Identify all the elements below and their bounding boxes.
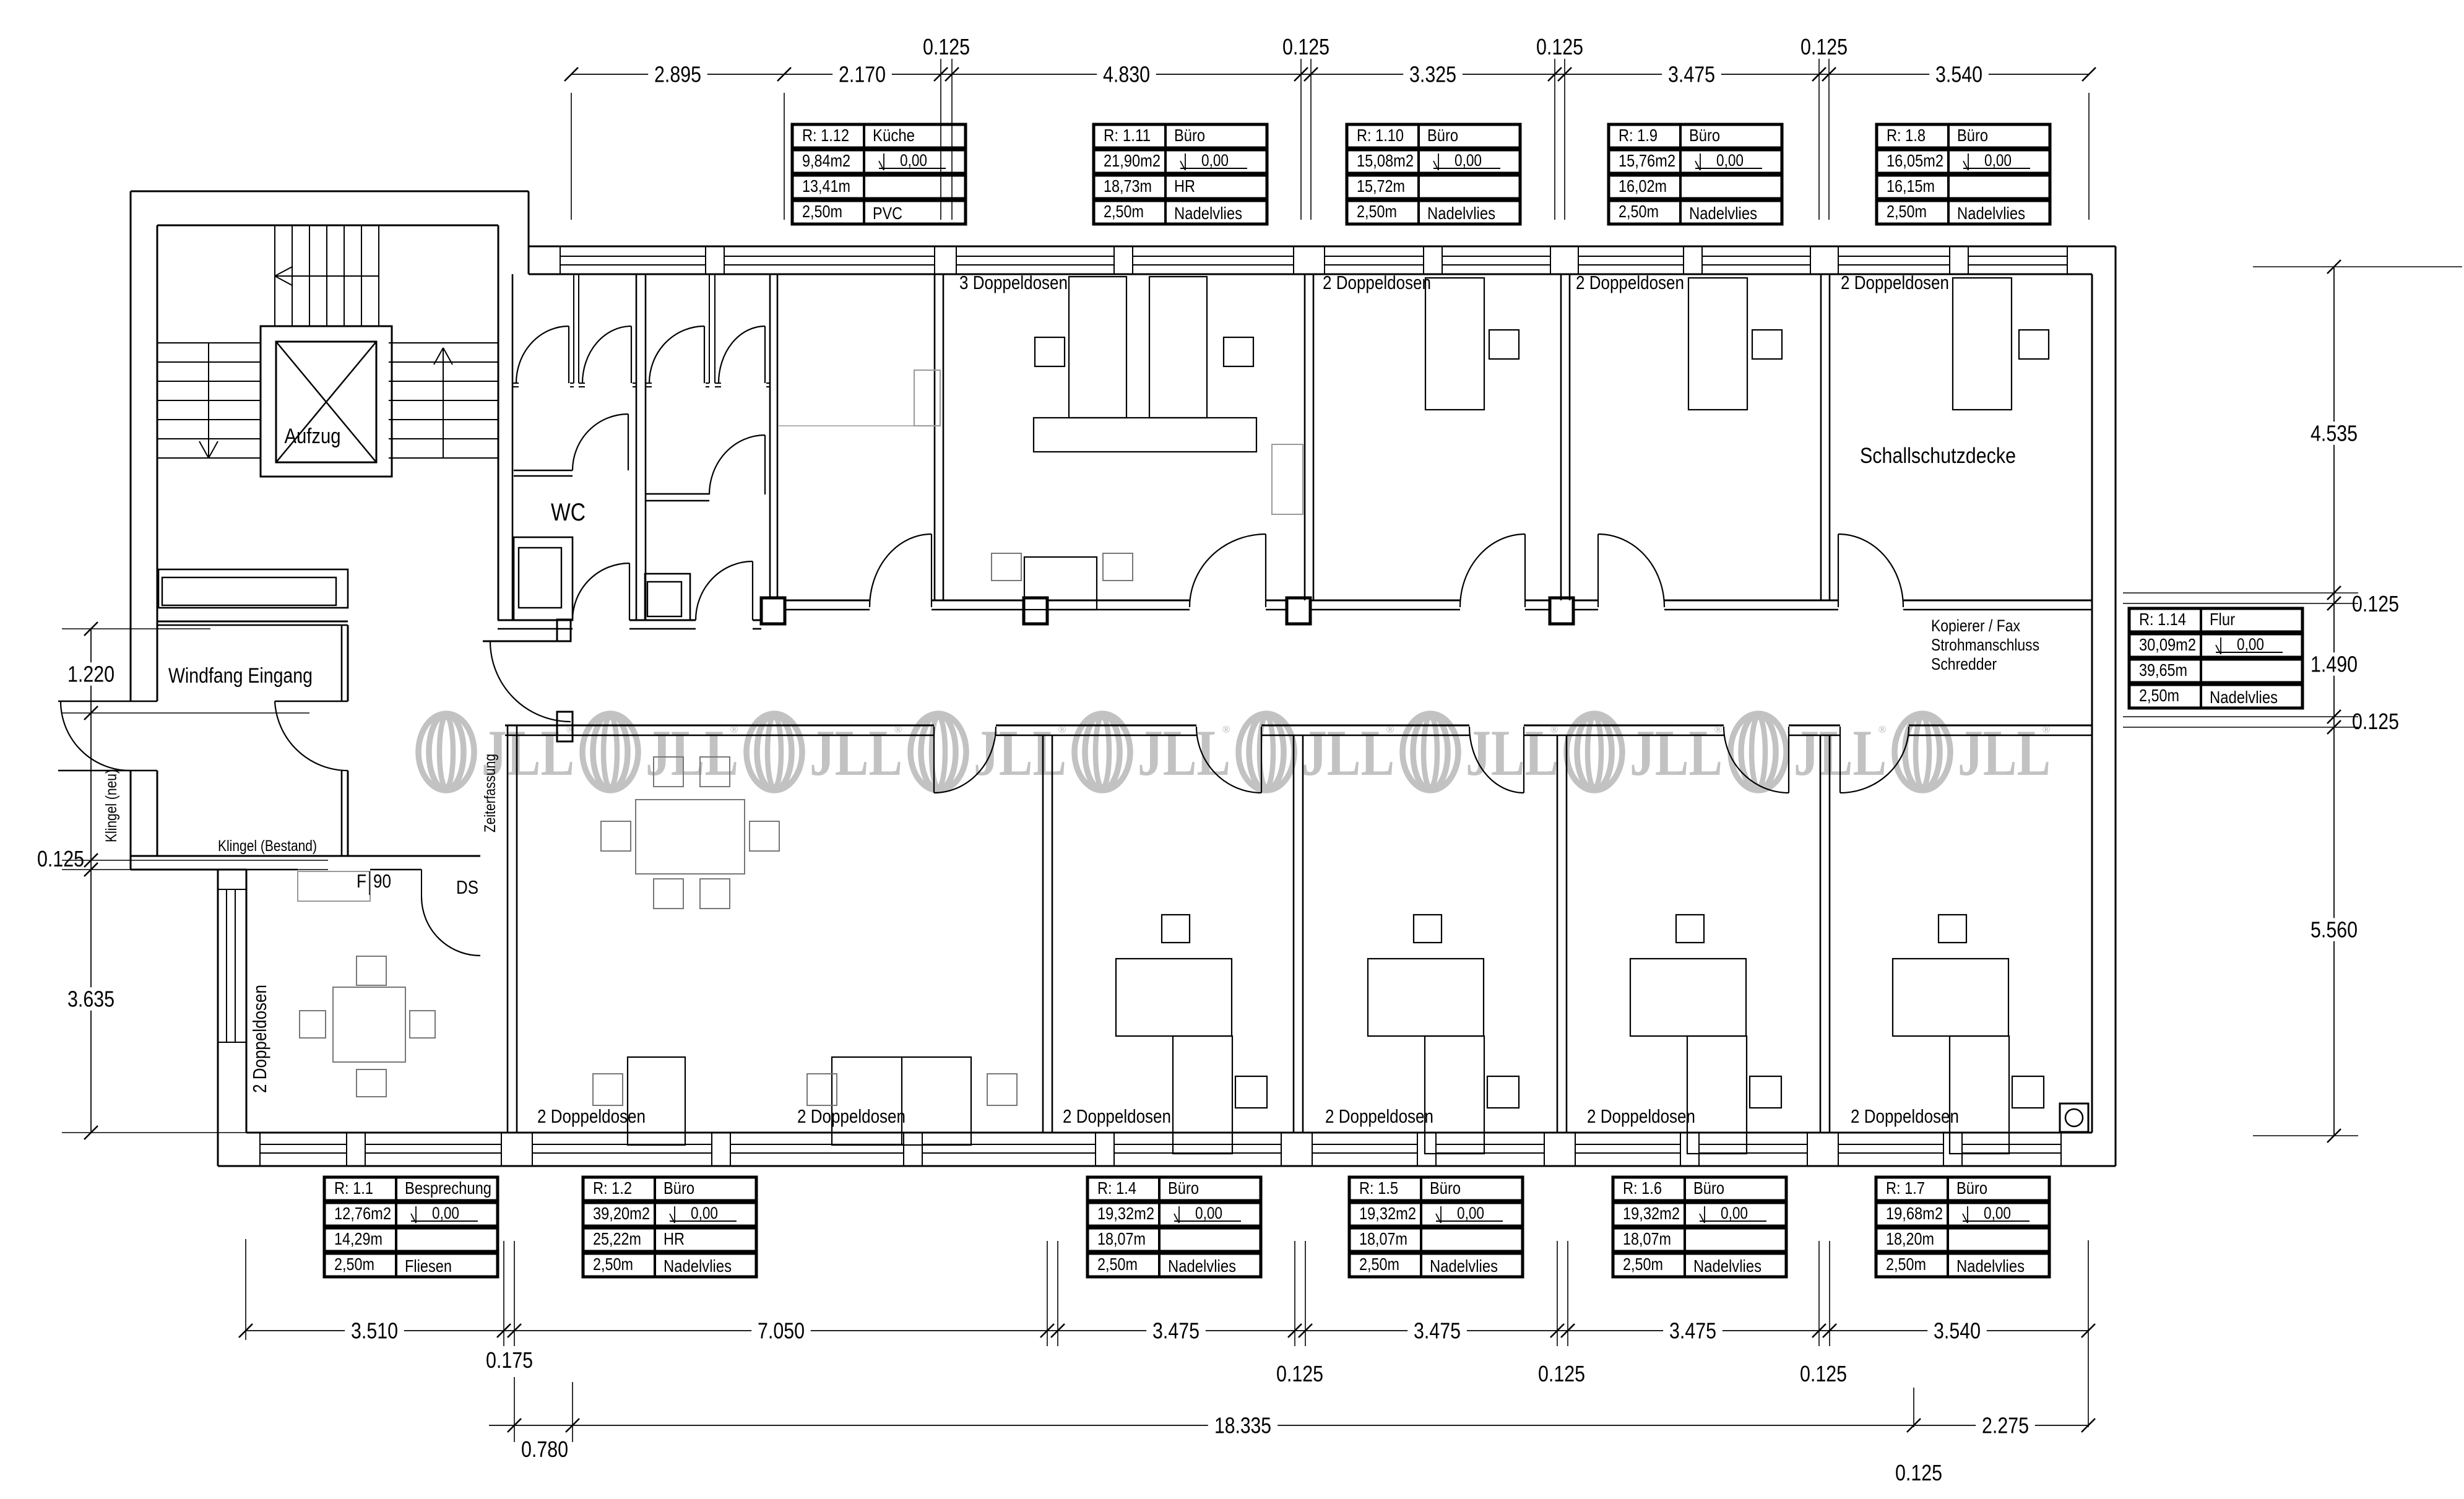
svg-text:Klingel (Bestand): Klingel (Bestand): [218, 837, 317, 855]
partition R1.2 / R1.4: [1042, 735, 1044, 1133]
svg-text:Nadelvlies: Nadelvlies: [1168, 1256, 1236, 1276]
desk R1.9: [1688, 278, 1747, 410]
svg-text:0,00: 0,00: [900, 151, 927, 170]
cabinet R1.11: [1272, 444, 1303, 514]
svg-text:4.535: 4.535: [2311, 421, 2358, 446]
svg-text:18,07m: 18,07m: [1623, 1229, 1671, 1248]
svg-text:0.125: 0.125: [1276, 1361, 1323, 1386]
svg-text:R: 1.7: R: 1.7: [1886, 1178, 1925, 1198]
svg-text:2,50m: 2,50m: [1097, 1255, 1138, 1274]
svg-text:Büro: Büro: [664, 1178, 694, 1198]
svg-text:18,20m: 18,20m: [1886, 1229, 1934, 1248]
svg-text:JLL: JLL: [1138, 717, 1230, 789]
outer wall building perimeter: [131, 191, 529, 192]
svg-text:Aufzug: Aufzug: [285, 425, 341, 448]
svg-text:R: 1.14: R: 1.14: [2139, 610, 2186, 629]
svg-text:3.325: 3.325: [1409, 62, 1456, 87]
svg-text:R: 1.6: R: 1.6: [1623, 1178, 1662, 1198]
svg-text:2,50m: 2,50m: [802, 202, 842, 221]
corridor columns: [761, 598, 785, 624]
svg-text:Windfang Eingang: Windfang Eingang: [168, 664, 313, 688]
svg-text:JLL: JLL: [1466, 717, 1558, 789]
besprechung west wall: [217, 870, 218, 1166]
top wall inner face: [529, 274, 2092, 275]
room table R: 1.4 B&#252;ro: [1087, 1177, 1261, 1201]
svg-text:JLL: JLL: [1958, 717, 2051, 789]
svg-text:Büro: Büro: [1956, 1178, 1987, 1198]
desk R1.10: [1425, 278, 1484, 410]
svg-text:R: 1.4: R: 1.4: [1097, 1178, 1136, 1198]
svg-text:39,20m2: 39,20m2: [593, 1204, 650, 1223]
svg-text:15,76m2: 15,76m2: [1619, 151, 1675, 170]
svg-text:14,29m: 14,29m: [334, 1229, 383, 1248]
svg-text:19,68m2: 19,68m2: [1886, 1204, 1943, 1223]
svg-text:3.475: 3.475: [1669, 1318, 1716, 1344]
room table R: 1.1 Besprechung: [324, 1177, 498, 1201]
left outer wall with entrance door opening: [130, 191, 132, 701]
kitchen counter: [914, 370, 940, 426]
entrance hall wardrobe: [158, 569, 348, 608]
desk R1.8: [1953, 278, 2012, 410]
svg-text:0.780: 0.780: [521, 1436, 568, 1462]
svg-text:4.830: 4.830: [1103, 62, 1150, 87]
svg-text:Nadelvlies: Nadelvlies: [664, 1256, 732, 1276]
svg-text:2,50m: 2,50m: [1359, 1255, 1399, 1274]
WC center partition wall: [636, 274, 638, 620]
door R1.7: [1839, 727, 1841, 793]
svg-text:JLL: JLL: [646, 717, 738, 789]
svg-text:Büro: Büro: [1957, 126, 1988, 145]
svg-text:2 Doppeldosen: 2 Doppeldosen: [1323, 272, 1431, 293]
svg-text:JLL: JLL: [1630, 717, 1723, 789]
svg-text:0.125: 0.125: [2352, 591, 2399, 616]
svg-text:2 Doppeldosen: 2 Doppeldosen: [797, 1105, 906, 1127]
svg-text:R: 1.1: R: 1.1: [334, 1178, 373, 1198]
svg-text:2 Doppeldosen: 2 Doppeldosen: [1851, 1105, 1959, 1127]
svg-text:30,09m2: 30,09m2: [2139, 635, 2196, 654]
svg-text:Büro: Büro: [1174, 126, 1205, 145]
svg-text:3.635: 3.635: [67, 987, 115, 1012]
room table R: 1.9 B&#252;ro: [1609, 124, 1782, 148]
svg-text:R: 1.11: R: 1.11: [1104, 126, 1151, 145]
svg-text:Strohmanschluss: Strohmanschluss: [1931, 636, 2039, 654]
svg-text:16,05m2: 16,05m2: [1887, 151, 1943, 170]
WC right small fixture: [645, 574, 690, 620]
svg-text:R: 1.10: R: 1.10: [1357, 126, 1404, 145]
svg-text:3.475: 3.475: [1152, 1318, 1200, 1344]
svg-text:Flur: Flur: [2210, 610, 2235, 629]
top dimension line: [571, 74, 2089, 75]
svg-text:2 Doppeldosen: 2 Doppeldosen: [1576, 272, 1684, 293]
desk R1.2 single: [628, 1057, 685, 1145]
bottom dimension line 2 overall: [489, 1425, 2088, 1426]
svg-text:2,50m: 2,50m: [1886, 1255, 1926, 1274]
svg-text:R: 1.9: R: 1.9: [1619, 126, 1658, 145]
WC stall partitions: [573, 274, 574, 383]
door R1.8: [1838, 534, 1839, 607]
svg-text:DS: DS: [456, 876, 478, 898]
svg-text:0,00: 0,00: [1716, 151, 1744, 170]
stair upper flight walking line with arrow: [275, 275, 378, 277]
svg-text:3.540: 3.540: [1934, 1318, 1981, 1344]
svg-text:3 Doppeldosen: 3 Doppeldosen: [959, 272, 1068, 293]
svg-text:3.540: 3.540: [1935, 62, 1982, 87]
svg-text:18.335: 18.335: [1214, 1413, 1271, 1438]
left dimension line: [90, 629, 92, 1133]
table R1.1 with chairs: [333, 987, 405, 1062]
svg-text:21,90m2: 21,90m2: [1104, 151, 1161, 170]
svg-text:JLL: JLL: [810, 717, 902, 789]
svg-text:®: ®: [1878, 724, 1887, 735]
svg-text:9,84m2: 9,84m2: [802, 151, 850, 170]
stair tower east wall / WC west wall: [498, 225, 499, 620]
corridor south wall with door openings: [505, 725, 934, 727]
svg-text:12,76m2: 12,76m2: [334, 1204, 391, 1223]
svg-text:2,50m: 2,50m: [593, 1255, 633, 1274]
WC lower-left cubicle: [514, 537, 573, 620]
svg-text:2,50m: 2,50m: [2139, 686, 2179, 705]
svg-text:1.490: 1.490: [2311, 652, 2358, 677]
svg-text:2,50m: 2,50m: [1357, 202, 1397, 221]
stair right walking line with up arrow: [443, 348, 444, 458]
svg-text:®: ®: [1222, 724, 1230, 735]
svg-text:7.050: 7.050: [758, 1318, 805, 1344]
svg-text:2,50m: 2,50m: [1619, 202, 1659, 221]
bottom dimension line 1: [246, 1330, 2088, 1331]
room table R: 1.5 B&#252;ro: [1349, 1177, 1523, 1201]
fire door F90 leaf: [298, 871, 370, 901]
partition R1.11 / R1.10: [1304, 274, 1306, 600]
svg-text:Küche: Küche: [873, 126, 915, 145]
svg-text:15,08m2: 15,08m2: [1357, 151, 1414, 170]
svg-text:0.125: 0.125: [923, 34, 970, 59]
svg-text:0.125: 0.125: [1800, 1361, 1847, 1386]
JLL watermark band: [418, 714, 1950, 790]
door R1.2: [933, 727, 935, 793]
room table R: 1.8 B&#252;ro: [1877, 124, 2050, 148]
door R1.5: [1523, 727, 1524, 793]
svg-text:25,22m: 25,22m: [593, 1229, 641, 1248]
stair right flight treads: [389, 342, 498, 343]
svg-text:Nadelvlies: Nadelvlies: [1174, 204, 1242, 223]
svg-text:Zeiterfassung: Zeiterfassung: [482, 754, 499, 832]
svg-text:13,41m: 13,41m: [802, 176, 850, 196]
door R1.4: [1261, 727, 1262, 793]
bottom wall windows and pillars: [260, 1144, 347, 1145]
room table R: 1.12 K&#252;che: [792, 124, 966, 148]
svg-text:R: 1.5: R: 1.5: [1359, 1178, 1398, 1198]
door R1.9: [1597, 534, 1599, 607]
svg-text:18,07m: 18,07m: [1097, 1229, 1146, 1248]
partition R1.2 west wall: [507, 725, 509, 1133]
svg-text:F: F: [357, 870, 366, 892]
desk R1.2 double: [832, 1057, 971, 1145]
room table R: 1.2 B&#252;ro: [583, 1177, 756, 1201]
svg-text:Nadelvlies: Nadelvlies: [1689, 204, 1757, 223]
svg-text:R: 1.12: R: 1.12: [802, 126, 849, 145]
partition R1.5 / R1.6: [1557, 735, 1558, 1133]
room table R: 1.6 B&#252;ro: [1613, 1177, 1786, 1201]
WC anteroom door left: [629, 563, 630, 620]
partition kitchen east wall: [934, 274, 936, 600]
svg-text:0.125: 0.125: [1800, 34, 1848, 59]
svg-text:2,50m: 2,50m: [1623, 1255, 1663, 1274]
left wall inner face: [157, 225, 158, 701]
WC south wall with two doors: [498, 620, 573, 621]
windfang east wall: [341, 625, 343, 701]
svg-text:R: 1.2: R: 1.2: [593, 1178, 632, 1198]
svg-text:0,00: 0,00: [1201, 151, 1229, 170]
svg-text:0,00: 0,00: [1455, 151, 1482, 170]
desk R1.7: [1893, 959, 2008, 1036]
svg-text:2 Doppeldosen: 2 Doppeldosen: [249, 985, 270, 1093]
svg-text:Nadelvlies: Nadelvlies: [1427, 204, 1495, 223]
svg-text:0,00: 0,00: [1721, 1204, 1748, 1222]
corridor north wall with door openings: [777, 600, 870, 602]
svg-text:1.220: 1.220: [67, 662, 115, 687]
svg-text:5.560: 5.560: [2311, 917, 2358, 943]
svg-text:0,00: 0,00: [1195, 1204, 1222, 1222]
door R1.6: [1788, 727, 1789, 793]
WC east wall / kitchen west wall: [769, 274, 771, 600]
corridor south wall west jamb: [557, 712, 573, 741]
svg-text:2.895: 2.895: [654, 62, 701, 87]
svg-text:0,00: 0,00: [2237, 635, 2264, 654]
besprechung north wall with F90 and DS doors: [131, 855, 480, 857]
partition R1.6 / R1.7: [1820, 735, 1822, 1133]
bottom wall inner face: [246, 1132, 2092, 1134]
desk R1.4: [1116, 959, 1232, 1036]
entry door to corridor flur: [483, 641, 557, 642]
svg-text:2,50m: 2,50m: [1887, 202, 1927, 221]
svg-text:2 Doppeldosen: 2 Doppeldosen: [1841, 272, 1949, 293]
svg-text:PVC: PVC: [873, 204, 902, 223]
svg-text:HR: HR: [1174, 176, 1195, 196]
svg-text:0.125: 0.125: [37, 846, 84, 871]
WC right room door: [764, 435, 766, 495]
svg-text:15,72m: 15,72m: [1357, 176, 1405, 196]
west wall window of room R1.1: [226, 889, 227, 1042]
svg-text:3.510: 3.510: [351, 1318, 398, 1344]
svg-text:2 Doppeldosen: 2 Doppeldosen: [537, 1105, 646, 1127]
svg-text:Büro: Büro: [1427, 126, 1458, 145]
svg-text:0,00: 0,00: [1984, 151, 2012, 170]
svg-text:2 Doppeldosen: 2 Doppeldosen: [1325, 1105, 1433, 1127]
door DS: [421, 897, 480, 956]
svg-text:2.275: 2.275: [1982, 1413, 2029, 1438]
meeting table R1.11: [1024, 557, 1097, 610]
WC left room front wall with door: [514, 470, 573, 472]
stair tower top wall inner face: [157, 225, 498, 227]
svg-text:0,00: 0,00: [432, 1204, 459, 1222]
svg-text:JLL: JLL: [1302, 717, 1394, 789]
svg-text:0.125: 0.125: [2352, 709, 2399, 734]
partition R1.10 / R1.9: [1560, 274, 1562, 600]
door R1.10: [1524, 534, 1526, 607]
svg-text:90: 90: [373, 870, 391, 892]
svg-text:0.175: 0.175: [486, 1347, 533, 1373]
svg-text:3.475: 3.475: [1668, 62, 1715, 87]
svg-text:0,00: 0,00: [1984, 1204, 2011, 1222]
svg-text:19,32m2: 19,32m2: [1359, 1204, 1416, 1223]
svg-text:2.170: 2.170: [839, 62, 886, 87]
svg-text:19,32m2: 19,32m2: [1097, 1204, 1154, 1223]
svg-text:R: 1.8: R: 1.8: [1887, 126, 1926, 145]
elevator Aufzug shaft: [261, 326, 392, 477]
svg-text:18,73m: 18,73m: [1104, 176, 1152, 196]
utility box bottom right: [2060, 1104, 2088, 1132]
room table R: 1.7 B&#252;ro: [1876, 1177, 2049, 1201]
svg-text:2,50m: 2,50m: [1104, 202, 1144, 221]
svg-text:Büro: Büro: [1689, 126, 1720, 145]
WC stall doors: [568, 326, 569, 383]
desk R1.6: [1630, 959, 1746, 1036]
svg-text:Nadelvlies: Nadelvlies: [1957, 204, 2025, 223]
svg-text:Büro: Büro: [1168, 1178, 1199, 1198]
svg-text:2 Doppeldosen: 2 Doppeldosen: [1063, 1105, 1171, 1127]
svg-text:Kopierer / Fax: Kopierer / Fax: [1931, 616, 2020, 635]
conference table R1.2: [636, 800, 745, 874]
svg-text:19,32m2: 19,32m2: [1623, 1204, 1680, 1223]
svg-text:Büro: Büro: [1693, 1178, 1724, 1198]
top wall windows and pillars: [560, 256, 706, 257]
svg-text:16,02m: 16,02m: [1619, 176, 1667, 196]
svg-text:2 Doppeldosen: 2 Doppeldosen: [1587, 1105, 1695, 1127]
svg-text:Schredder: Schredder: [1931, 655, 1997, 673]
partition R1.4 / R1.5: [1293, 735, 1295, 1133]
svg-text:0,00: 0,00: [691, 1204, 718, 1222]
room table R: 1.10 B&#252;ro: [1347, 124, 1520, 148]
WC left room door: [628, 414, 629, 470]
door kitchen R1.12: [931, 534, 932, 607]
svg-text:Nadelvlies: Nadelvlies: [1956, 1256, 2025, 1276]
svg-text:Nadelvlies: Nadelvlies: [1430, 1256, 1498, 1276]
WC right room front wall with door: [646, 493, 709, 495]
svg-text:HR: HR: [664, 1229, 685, 1248]
svg-text:Nadelvlies: Nadelvlies: [1693, 1256, 1762, 1276]
svg-text:Schallschutzdecke: Schallschutzdecke: [1860, 444, 2016, 468]
svg-text:Nadelvlies: Nadelvlies: [2210, 688, 2278, 707]
desk R1.5: [1368, 959, 1484, 1036]
svg-text:16,15m: 16,15m: [1887, 176, 1935, 196]
windfang north wall: [157, 621, 348, 623]
svg-text:Besprechung: Besprechung: [405, 1178, 491, 1198]
svg-text:0.125: 0.125: [1282, 34, 1329, 59]
WC anteroom door right: [752, 561, 753, 620]
svg-text:39,65m: 39,65m: [2139, 660, 2187, 680]
svg-text:0.125: 0.125: [1538, 1361, 1585, 1386]
right dimension line: [2333, 267, 2335, 1136]
stair left walking line with down arrow: [208, 343, 209, 458]
windfang inner door: [275, 701, 348, 702]
svg-text:2,50m: 2,50m: [334, 1255, 374, 1274]
svg-text:18,07m: 18,07m: [1359, 1229, 1407, 1248]
svg-text:Büro: Büro: [1430, 1178, 1461, 1198]
entrance exterior door: [58, 701, 157, 702]
partition R1.9 / R1.8: [1820, 274, 1822, 600]
svg-text:Fliesen: Fliesen: [405, 1256, 452, 1276]
svg-text:0.125: 0.125: [1536, 34, 1583, 59]
svg-text:0,00: 0,00: [1457, 1204, 1484, 1222]
stair left flight treads: [157, 342, 261, 343]
room table R: 1.11 B&#252;ro: [1094, 124, 1267, 148]
svg-text:0.125: 0.125: [1895, 1460, 1942, 1485]
room table R: 1.14 Flur: [2129, 608, 2302, 632]
desks R1.11: [1069, 277, 1126, 418]
right wall inner face: [2091, 274, 2093, 1133]
door R1.11: [1265, 534, 1266, 607]
svg-text:WC: WC: [551, 499, 586, 526]
svg-text:3.475: 3.475: [1414, 1318, 1461, 1344]
stair upper flight treads: [274, 225, 275, 327]
svg-text:Klingel (neu): Klingel (neu): [103, 769, 120, 842]
